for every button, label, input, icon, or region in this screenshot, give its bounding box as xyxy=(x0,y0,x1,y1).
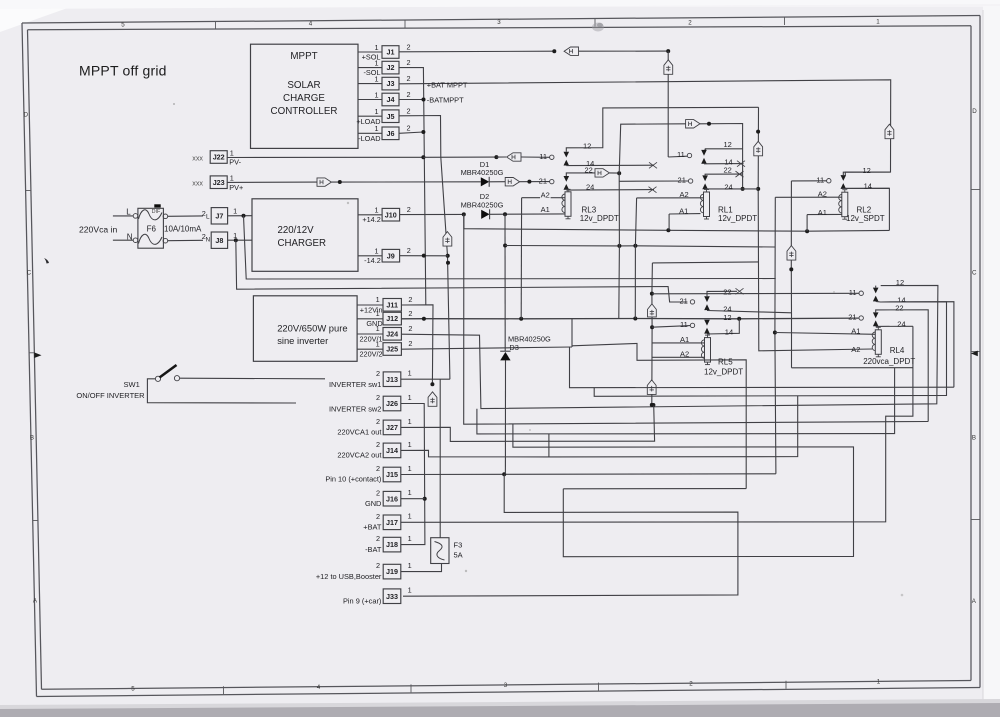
svg-text:SW1: SW1 xyxy=(124,380,140,389)
svg-text:11: 11 xyxy=(816,175,824,184)
svg-text:J14: J14 xyxy=(386,446,398,455)
svg-text:J5: J5 xyxy=(387,112,395,121)
svg-text:J22: J22 xyxy=(213,153,225,162)
svg-text:5A: 5A xyxy=(454,551,463,560)
svg-text:1: 1 xyxy=(374,58,378,67)
svg-text:21: 21 xyxy=(539,176,547,185)
svg-text:1: 1 xyxy=(374,90,378,99)
svg-text:1: 1 xyxy=(376,324,380,333)
svg-text:2: 2 xyxy=(376,561,380,570)
svg-text:2: 2 xyxy=(406,58,410,67)
svg-text:J12: J12 xyxy=(386,314,398,323)
svg-text:1: 1 xyxy=(408,440,412,449)
svg-text:2: 2 xyxy=(407,205,411,214)
svg-text:J11: J11 xyxy=(386,300,398,309)
svg-text:+BAT: +BAT xyxy=(363,523,382,532)
svg-text:2: 2 xyxy=(376,417,380,426)
svg-text:2: 2 xyxy=(406,42,410,51)
svg-text:4: 4 xyxy=(317,684,321,691)
svg-text:24: 24 xyxy=(586,183,594,192)
svg-text:J25: J25 xyxy=(386,345,398,354)
svg-text:1: 1 xyxy=(374,43,378,52)
svg-text:J19: J19 xyxy=(386,567,398,576)
svg-text:220V/650W pure: 220V/650W pure xyxy=(277,323,347,334)
svg-text:A2: A2 xyxy=(851,345,860,354)
svg-text:1: 1 xyxy=(877,679,881,686)
svg-text:A1: A1 xyxy=(679,207,688,216)
svg-text:B: B xyxy=(30,435,34,442)
svg-text:220/12V: 220/12V xyxy=(278,225,315,236)
svg-text:12v_DPDT: 12v_DPDT xyxy=(718,214,757,223)
svg-text:22: 22 xyxy=(723,287,731,296)
svg-text:MBR40250G: MBR40250G xyxy=(461,168,504,177)
svg-text:Pin 9 (+car): Pin 9 (+car) xyxy=(343,596,381,605)
svg-text:Pin 10 (+contact): Pin 10 (+contact) xyxy=(325,475,381,484)
svg-text:J10: J10 xyxy=(385,210,397,219)
svg-text:J8: J8 xyxy=(215,236,223,245)
svg-text:J17: J17 xyxy=(386,518,398,527)
svg-text:12: 12 xyxy=(583,142,591,151)
svg-text:L: L xyxy=(126,207,131,216)
svg-text:11: 11 xyxy=(680,320,688,329)
svg-text:A2: A2 xyxy=(818,189,827,198)
svg-text:A1: A1 xyxy=(541,205,550,214)
svg-text:sine inverter: sine inverter xyxy=(277,335,328,346)
svg-text:21: 21 xyxy=(679,297,687,306)
svg-text:DIF: DIF xyxy=(152,209,161,215)
svg-text:MPPT: MPPT xyxy=(290,51,317,62)
svg-text:5: 5 xyxy=(121,22,125,29)
svg-text:GND: GND xyxy=(365,499,381,508)
svg-text:RL4: RL4 xyxy=(890,346,905,355)
svg-text:J33: J33 xyxy=(386,592,398,601)
svg-text:D3: D3 xyxy=(509,343,518,352)
svg-text:14: 14 xyxy=(725,328,733,337)
svg-text:5: 5 xyxy=(131,686,135,693)
svg-text:xxx: xxx xyxy=(192,179,203,188)
svg-text:PV+: PV+ xyxy=(229,183,243,192)
svg-text:D: D xyxy=(972,108,977,115)
svg-text:1: 1 xyxy=(376,295,380,304)
svg-text:2: 2 xyxy=(376,534,380,543)
svg-text:1: 1 xyxy=(376,309,380,318)
svg-text:22: 22 xyxy=(585,166,593,175)
svg-text:INVERTER sw1: INVERTER sw1 xyxy=(329,380,381,389)
svg-text:PV-: PV- xyxy=(229,158,241,167)
svg-text:xxx: xxx xyxy=(192,154,203,163)
svg-text:F3: F3 xyxy=(454,541,463,550)
svg-text:B: B xyxy=(972,435,976,442)
svg-text:2: 2 xyxy=(408,309,412,318)
svg-text:J2: J2 xyxy=(387,63,395,72)
svg-text:1: 1 xyxy=(408,561,412,570)
svg-text:J1: J1 xyxy=(387,48,395,57)
svg-text:ON/OFF INVERTER: ON/OFF INVERTER xyxy=(76,391,145,400)
svg-text:1: 1 xyxy=(408,512,412,521)
svg-text:+12 to USB,Booster: +12 to USB,Booster xyxy=(316,572,382,581)
svg-text:12v_DPDT: 12v_DPDT xyxy=(704,367,743,376)
svg-text:A2: A2 xyxy=(680,349,689,358)
svg-text:CHARGER: CHARGER xyxy=(278,238,326,249)
svg-text:3: 3 xyxy=(504,682,508,689)
svg-text:12: 12 xyxy=(723,313,731,322)
svg-text:RL3: RL3 xyxy=(582,205,597,214)
svg-text:1: 1 xyxy=(233,207,237,216)
svg-text:SOLAR: SOLAR xyxy=(287,80,320,91)
svg-text:A2: A2 xyxy=(541,191,550,200)
svg-text:J18: J18 xyxy=(386,540,398,549)
svg-text:1: 1 xyxy=(376,339,380,348)
svg-text:J23: J23 xyxy=(213,178,225,187)
svg-text:MBR40250G: MBR40250G xyxy=(461,200,504,209)
svg-text:1: 1 xyxy=(408,417,412,426)
svg-text:24: 24 xyxy=(724,182,732,191)
svg-text:J15: J15 xyxy=(386,470,398,479)
svg-text:1: 1 xyxy=(876,18,880,25)
svg-text:J6: J6 xyxy=(387,129,395,138)
svg-text:12: 12 xyxy=(724,140,732,149)
svg-text:C: C xyxy=(972,270,977,277)
svg-text:22: 22 xyxy=(724,165,732,174)
svg-text:A1: A1 xyxy=(851,327,860,336)
svg-text:1: 1 xyxy=(230,148,234,157)
svg-text:2: 2 xyxy=(407,246,411,255)
svg-text:2: 2 xyxy=(408,339,412,348)
svg-text:2: 2 xyxy=(376,393,380,402)
svg-text:C: C xyxy=(27,270,32,277)
svg-text:24: 24 xyxy=(723,304,731,313)
svg-text:11: 11 xyxy=(849,288,857,297)
svg-text:11: 11 xyxy=(677,150,685,159)
svg-text:L: L xyxy=(206,213,210,220)
svg-text:J7: J7 xyxy=(215,211,223,220)
svg-text:1: 1 xyxy=(374,205,378,214)
svg-text:-LOAD: -LOAD xyxy=(358,134,380,143)
svg-text:1: 1 xyxy=(408,586,412,595)
svg-text:2: 2 xyxy=(406,74,410,83)
svg-text:12v_DPDT: 12v_DPDT xyxy=(580,214,619,223)
svg-text:J26: J26 xyxy=(386,399,398,408)
svg-text:INVERTER sw2: INVERTER sw2 xyxy=(329,405,381,414)
svg-text:2: 2 xyxy=(406,90,410,99)
svg-text:2: 2 xyxy=(408,295,412,304)
svg-text:4: 4 xyxy=(309,20,313,27)
svg-text:2: 2 xyxy=(376,488,380,497)
svg-text:220V/2: 220V/2 xyxy=(359,350,382,359)
svg-text:2: 2 xyxy=(688,19,692,26)
svg-text:A1: A1 xyxy=(818,208,827,217)
svg-text:3: 3 xyxy=(497,19,501,26)
svg-text:21: 21 xyxy=(848,313,856,322)
svg-text:A2: A2 xyxy=(680,190,689,199)
svg-text:1: 1 xyxy=(408,464,412,473)
svg-text:-14.2: -14.2 xyxy=(364,256,381,265)
svg-text:J24: J24 xyxy=(386,329,398,338)
svg-text:A1: A1 xyxy=(680,335,689,344)
svg-text:GND: GND xyxy=(366,319,382,328)
svg-text:1: 1 xyxy=(408,369,412,378)
svg-text:22: 22 xyxy=(895,304,903,313)
svg-text:D: D xyxy=(24,112,29,119)
svg-text:2: 2 xyxy=(406,107,410,116)
svg-text:1: 1 xyxy=(408,488,412,497)
svg-text:CONTROLLER: CONTROLLER xyxy=(271,106,338,117)
svg-text:2: 2 xyxy=(406,124,410,133)
svg-text:J4: J4 xyxy=(387,95,395,104)
svg-text:1: 1 xyxy=(374,107,378,116)
svg-text:MPPT off grid: MPPT off grid xyxy=(79,63,167,79)
svg-text:220VCA1 out: 220VCA1 out xyxy=(337,428,381,437)
svg-text:J9: J9 xyxy=(387,251,395,260)
svg-text:12v_SPDT: 12v_SPDT xyxy=(846,214,885,223)
svg-text:2: 2 xyxy=(376,512,380,521)
svg-text:12: 12 xyxy=(863,166,871,175)
svg-text:1: 1 xyxy=(230,173,234,182)
svg-text:220Vca in: 220Vca in xyxy=(79,225,117,235)
svg-text:10A/10mA: 10A/10mA xyxy=(164,224,202,233)
svg-text:+14.2: +14.2 xyxy=(362,215,380,224)
svg-text:N: N xyxy=(205,237,210,244)
svg-text:-BATMPPT: -BATMPPT xyxy=(427,96,464,105)
svg-text:J3: J3 xyxy=(387,79,395,88)
svg-text:1: 1 xyxy=(408,534,412,543)
svg-text:-BAT: -BAT xyxy=(365,545,382,554)
svg-text:RL1: RL1 xyxy=(718,205,733,214)
svg-text:1: 1 xyxy=(374,74,378,83)
svg-text:1: 1 xyxy=(374,246,378,255)
svg-text:F6: F6 xyxy=(147,224,157,233)
svg-text:2: 2 xyxy=(408,324,412,333)
svg-text:21: 21 xyxy=(678,176,686,185)
svg-text:220vca_DPDT: 220vca_DPDT xyxy=(863,357,915,366)
svg-text:14: 14 xyxy=(864,182,872,191)
svg-text:24: 24 xyxy=(897,319,905,328)
svg-text:2: 2 xyxy=(689,680,693,687)
svg-text:J27: J27 xyxy=(386,423,398,432)
svg-text:CHARGE: CHARGE xyxy=(283,93,325,104)
svg-text:1: 1 xyxy=(408,393,412,402)
svg-text:12: 12 xyxy=(896,278,904,287)
svg-text:220VCA2 out: 220VCA2 out xyxy=(337,451,381,460)
svg-text:1: 1 xyxy=(374,124,378,133)
svg-text:J13: J13 xyxy=(386,375,398,384)
svg-text:2: 2 xyxy=(376,369,380,378)
svg-text:11: 11 xyxy=(539,152,547,161)
svg-text:J16: J16 xyxy=(386,494,398,503)
svg-text:2: 2 xyxy=(376,440,380,449)
svg-text:2: 2 xyxy=(376,464,380,473)
svg-text:RL5: RL5 xyxy=(718,358,733,367)
svg-text:+BAT MPPT: +BAT MPPT xyxy=(427,80,468,89)
